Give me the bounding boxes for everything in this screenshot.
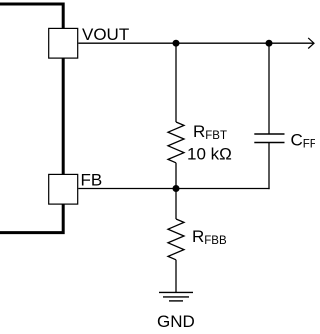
junction node (VOUT / CFF): [266, 40, 273, 47]
wire FB net (horizontal): [78, 188, 269, 190]
arrow (VOUT output, pointing right): [308, 38, 314, 49]
wire VOUT net (horizontal): [78, 42, 313, 44]
junction node (VOUT / RFBT): [173, 40, 180, 47]
wire FB net to RFBB top: [175, 189, 177, 220]
pin box FB: [49, 174, 78, 204]
svg-text:VOUT: VOUT: [82, 25, 129, 44]
svg-text:GND: GND: [157, 312, 195, 331]
junction node (FB / RFBT / RFBB): [173, 185, 180, 192]
svg-text:10 kΩ: 10 kΩ: [187, 145, 232, 164]
pin box VOUT: [49, 28, 78, 58]
op-amp U1 (IC body outline, partial at left edge): [0, 4, 63, 233]
ground: [159, 292, 193, 301]
svg-text:FB: FB: [81, 171, 103, 190]
wire CFF bottom to FB net: [268, 143, 270, 190]
resistor RFBB: [168, 219, 184, 260]
resistor RFBT: [168, 122, 184, 163]
capacitor CFF: [254, 134, 284, 143]
wire VOUT to CFF top: [268, 43, 270, 134]
wire RFBB bottom to ground: [175, 260, 177, 293]
wire VOUT to RFBT top: [175, 43, 177, 122]
wire RFBT bottom to FB net: [175, 163, 177, 189]
